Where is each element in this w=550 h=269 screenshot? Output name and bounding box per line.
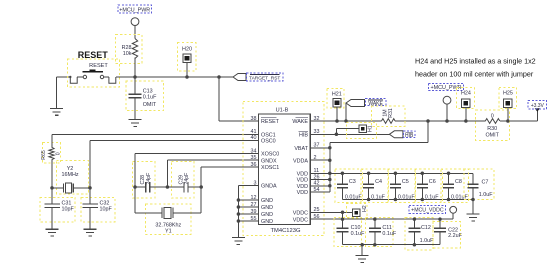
wire XOSC0 net (135, 154, 259, 213)
junction C6 bottom (421, 198, 425, 202)
junction C8 bottom (447, 198, 451, 202)
ground (C31) (46, 229, 59, 236)
svg-text:H2: H2 (362, 205, 368, 212)
svg-text:0.1uF: 0.1uF (143, 94, 157, 100)
resistor R28 (116, 35, 142, 77)
resistor R65 (41, 134, 61, 188)
svg-text:header on 100 mil center with: header on 100 mil center with jumper (415, 70, 534, 79)
svg-text:24pF: 24pF (184, 173, 190, 185)
pin 2 stub (310, 158, 331, 162)
capacitor C4 (361, 169, 389, 202)
svg-text:TARGET_RST: TARGET_RST (249, 75, 280, 81)
crystal Y1 32.768Khz (135, 204, 201, 235)
resistor R31 (372, 106, 405, 126)
svg-text:10k: 10k (123, 51, 132, 57)
svg-text:C7: C7 (482, 179, 489, 185)
svg-text:0.01uF: 0.01uF (345, 194, 362, 200)
pin 34 stub (245, 153, 259, 155)
svg-text:0: 0 (56, 152, 62, 155)
resistor R30 (476, 110, 510, 140)
svg-text:RESET: RESET (89, 63, 108, 69)
pin 37 stub (310, 146, 331, 150)
svg-text:VDD: VDD (297, 178, 308, 184)
node XOSC0 (133, 185, 137, 189)
pin 42 stub (310, 184, 331, 188)
svg-text:GND: GND (261, 212, 273, 218)
svg-text:GND: GND (261, 219, 273, 225)
capacitor C7 (464, 169, 494, 214)
net flag HIB (389, 131, 415, 139)
svg-text:16MHz: 16MHz (61, 172, 78, 178)
svg-text:0.01uF: 0.01uF (398, 194, 415, 200)
ground (push button) (50, 77, 63, 115)
svg-text:0.1uF: 0.1uF (351, 231, 365, 237)
pin 3 stub / GND bus (237, 186, 259, 238)
svg-text:HIB: HIB (405, 133, 414, 139)
wire HIB line (310, 133, 389, 135)
wire XOSC1 net (201, 167, 258, 213)
svg-text:24pF: 24pF (146, 173, 152, 185)
svg-text:H24 and H25 installed as a sin: H24 and H25 installed as a single 1x2 (415, 57, 536, 66)
svg-text:R31: R31 (388, 108, 394, 118)
header H21 (327, 88, 344, 122)
svg-text:GNDX: GNDX (261, 158, 277, 164)
wire VDDC rail A (310, 211, 352, 215)
svg-text:TM4C123G: TM4C123G (271, 228, 301, 234)
capacitor C29 (167, 161, 201, 198)
pin 11 stub / VDD rail (310, 172, 473, 176)
svg-text:C8: C8 (455, 179, 462, 185)
svg-text:C3: C3 (349, 179, 356, 185)
svg-text:1.0uF: 1.0uF (420, 238, 434, 244)
pin 36 stub (245, 166, 259, 168)
wire GNDX net (167, 160, 258, 187)
svg-text:R65: R65 (41, 150, 47, 160)
svg-text:C31: C31 (62, 201, 72, 207)
svg-text:+3.3V: +3.3V (531, 103, 545, 109)
pin 38 stub (245, 120, 259, 122)
svg-text:VDD: VDD (297, 172, 308, 178)
svg-text:U1-B: U1-B (276, 108, 289, 114)
header H24 (457, 87, 475, 122)
pin 26 stub (310, 178, 331, 182)
svg-text:HIB: HIB (299, 133, 308, 139)
node GNDX (166, 185, 170, 189)
header H1 (335, 123, 377, 139)
svg-text:C6: C6 (429, 179, 436, 185)
svg-text:Y1: Y1 (165, 229, 172, 235)
wire reset net (57, 76, 71, 78)
capacitor C5 (388, 169, 416, 202)
svg-text:0: 0 (491, 113, 494, 119)
junction C5 bottom (394, 198, 398, 202)
wire OSC1 net (52, 134, 259, 144)
node XOSC1 (199, 185, 203, 189)
op-amp U1 TM4C123G chip (243, 102, 324, 236)
svg-text:H24: H24 (461, 91, 471, 97)
capacitor C31 (40, 188, 75, 229)
svg-text:VBAT: VBAT (294, 146, 308, 152)
note text (415, 57, 536, 79)
svg-text:XOSC1: XOSC1 (261, 165, 279, 171)
svg-text:0.1uF: 0.1uF (371, 194, 385, 200)
wire WAKE/+MCU_PWR line (310, 120, 537, 122)
capacitor C32 (81, 188, 115, 229)
ground (C32) (84, 229, 97, 236)
net flag +3.3V (528, 100, 546, 121)
svg-text:RESET: RESET (78, 50, 109, 60)
capacitor C28 (133, 161, 168, 198)
net flag TARGET_RST (233, 73, 283, 81)
ground (C13) (129, 120, 142, 127)
header H20 (178, 43, 197, 79)
svg-text:2.2uF: 2.2uF (448, 233, 462, 239)
svg-text:WAKE: WAKE (292, 119, 308, 125)
svg-text:C12: C12 (421, 225, 431, 231)
header H25 (499, 87, 517, 122)
svg-text:C32: C32 (100, 201, 110, 207)
power +MCU_PWR (right) (429, 83, 464, 122)
svg-text:0.1uF: 0.1uF (425, 194, 439, 200)
svg-text:VDDC: VDDC (293, 211, 308, 217)
capacitor C8 (441, 169, 469, 202)
svg-text:GND: GND (261, 198, 273, 204)
header H2 (346, 204, 368, 219)
ground (VDDC caps) (356, 245, 369, 263)
wire reset net 2 (69, 76, 233, 78)
svg-text:R30: R30 (487, 126, 497, 132)
capacitor C10 (334, 212, 365, 246)
svg-text:+MCU_VDDC: +MCU_VDDC (411, 207, 444, 213)
junction C4 bottom (367, 198, 371, 202)
pin 41 stub (245, 133, 259, 135)
ground (C7) (467, 214, 480, 221)
svg-text:10pF: 10pF (62, 207, 75, 213)
pin 54 stub (310, 191, 330, 193)
svg-text:GNDA: GNDA (261, 184, 277, 190)
svg-text:Y2: Y2 (67, 166, 74, 172)
wire VDD cap bottom rail (342, 199, 473, 201)
svg-text:H1: H1 (368, 125, 374, 132)
svg-text:H20: H20 (182, 47, 192, 53)
push button S1 RESET (67, 50, 119, 87)
power +MCU_PWR (left) (118, 5, 151, 39)
capacitor C3 (335, 169, 363, 202)
node Y2 left (50, 186, 54, 190)
svg-text:VDD: VDD (297, 184, 308, 190)
svg-text:XOSC0: XOSC0 (261, 152, 279, 158)
svg-text:OSC0: OSC0 (261, 139, 276, 145)
node Y2 right (88, 186, 92, 190)
svg-text:10pF: 10pF (100, 207, 113, 213)
junction to cap bank (330, 119, 430, 192)
svg-text:0.1uF: 0.1uF (382, 231, 396, 237)
junction R28/C13 (133, 75, 137, 79)
svg-text:OMIT: OMIT (143, 102, 157, 108)
svg-text:VDD: VDD (297, 190, 308, 196)
junction TARGET_RST (217, 75, 258, 121)
wire VDDC bottom rail (343, 243, 441, 247)
wire VDDC rail B (310, 217, 453, 221)
svg-text:VDDA: VDDA (293, 158, 308, 164)
svg-text:C4: C4 (375, 179, 382, 185)
capacitor C22 (433, 217, 463, 247)
ground (chip GND) (232, 238, 245, 245)
capacitor C6 (415, 169, 443, 202)
svg-text:H21: H21 (332, 92, 342, 98)
svg-text:+MCU_PWR: +MCU_PWR (119, 8, 150, 14)
power +MCU_VDDC (409, 206, 457, 220)
svg-text:1.0uF: 1.0uF (479, 192, 493, 198)
wire OSC0 net (90, 140, 259, 188)
svg-text:H25: H25 (503, 91, 513, 97)
capacitor C12 (405, 217, 434, 250)
svg-text:RESET: RESET (261, 119, 280, 125)
svg-text:VDDC: VDDC (293, 217, 308, 223)
pin 40 stub (245, 139, 259, 141)
svg-text:GND: GND (261, 205, 273, 211)
capacitor C13 (126, 77, 164, 120)
svg-text:OMIT: OMIT (485, 132, 499, 138)
crystal Y2 16MHz (52, 160, 90, 194)
capacitor C11 (366, 217, 397, 246)
net flag WAKE (344, 99, 386, 123)
pin 35 stub (245, 159, 259, 161)
svg-text:C5: C5 (402, 179, 409, 185)
